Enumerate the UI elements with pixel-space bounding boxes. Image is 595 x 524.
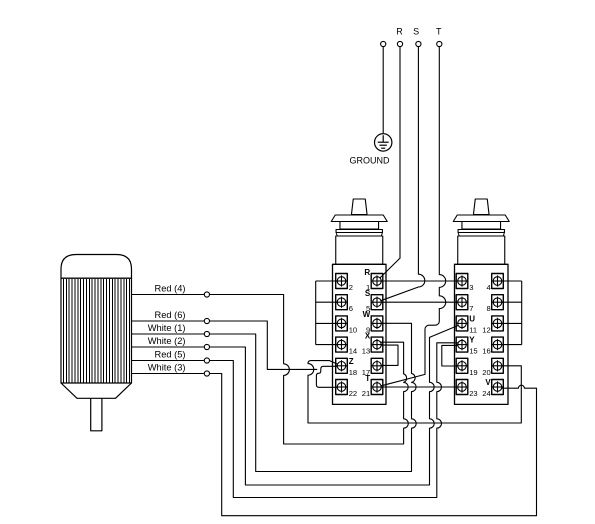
supply entry terminal circle S <box>416 41 421 46</box>
svg-text:14: 14 <box>349 347 357 356</box>
svg-text:R: R <box>364 268 370 277</box>
svg-text:10: 10 <box>349 325 357 334</box>
svg-text:6: 6 <box>349 304 353 313</box>
svg-text:Y: Y <box>469 336 475 345</box>
svg-text:23: 23 <box>469 389 477 398</box>
supply entry terminal circle T <box>437 41 442 46</box>
supply entry terminal circle R <box>397 41 402 46</box>
terminal block 2 terminal 3 screw <box>456 274 468 289</box>
terminal block 2 terminal 15 screw <box>456 337 468 352</box>
svg-text:11: 11 <box>469 325 477 334</box>
wire terminal 1 to terminal 3 <box>378 280 461 282</box>
wire White (2) from motor to terminal 11 U <box>132 324 461 485</box>
wire Red (5) from motor to terminal 15 Y <box>132 343 462 498</box>
wire terminal 5 to terminal 7 <box>378 301 461 303</box>
terminal block 1 terminal 22 screw <box>336 380 348 395</box>
svg-text:2: 2 <box>349 283 353 292</box>
terminal block 1 terminal 5 screw <box>371 295 383 310</box>
svg-text:18: 18 <box>349 368 357 377</box>
terminal block 1 terminal 14 screw <box>336 337 348 352</box>
motor lead connector circle at y=334.0 <box>204 331 209 336</box>
svg-text:X: X <box>365 331 371 340</box>
terminal block 1 terminal strip body <box>333 264 387 404</box>
terminal block 1 terminal 2 screw <box>336 274 348 289</box>
svg-text:3: 3 <box>469 283 473 292</box>
ground symbol <box>375 134 392 151</box>
wire terminal 21 to terminal 23 <box>379 386 462 388</box>
svg-text:U: U <box>469 315 475 324</box>
motor shaft <box>91 398 102 431</box>
wire White (1) from motor to terminal 9 W <box>132 323 417 471</box>
svg-text:15: 15 <box>469 347 477 356</box>
terminal block 2 terminal 8 screw <box>492 295 504 310</box>
svg-text:13: 13 <box>362 347 370 356</box>
wire Red (4) from motor to terminal 13 X, hops over Red6 wire, bus 20-18, wire 21-23 and T diagonal <box>132 295 409 445</box>
svg-text:S: S <box>365 289 371 298</box>
supply entry terminal circle (ground lead) <box>381 41 386 46</box>
terminal block 1 terminal 6 screw <box>336 295 348 310</box>
svg-text:7: 7 <box>469 304 473 313</box>
terminal block 1 terminal 17 screw <box>371 358 383 373</box>
svg-text:20: 20 <box>482 368 490 377</box>
svg-text:Red (6): Red (6) <box>154 310 185 320</box>
wire S supply down, hop over wire 1-3, to terminal 5 <box>378 47 425 302</box>
motor lead connector circle at y=347.0 <box>204 344 209 349</box>
svg-text:12: 12 <box>482 325 490 334</box>
motor stator hatched section <box>61 278 132 383</box>
terminal block 1 terminal 1 screw <box>371 274 383 289</box>
terminal block 2 terminal 19 screw <box>456 358 468 373</box>
svg-text:White (3): White (3) <box>148 363 186 373</box>
terminal block 2 terminal 24 screw <box>492 380 504 395</box>
svg-text:4: 4 <box>486 283 490 292</box>
svg-text:16: 16 <box>482 347 490 356</box>
terminal block 2 terminal 11 screw <box>456 316 468 331</box>
terminal block 2 terminal 7 screw <box>456 295 468 310</box>
terminal block 2 terminal 4 screw <box>492 274 504 289</box>
terminal block 1 terminal 9 screw <box>371 316 383 331</box>
terminal block 1 terminal 13 screw <box>371 337 383 352</box>
jumper terminal 18 Z to terminal 22 <box>316 366 340 387</box>
svg-text:W: W <box>363 310 371 319</box>
wire ground lead down to ground symbol <box>382 47 384 134</box>
terminal block 2 terminal 20 screw <box>492 358 504 373</box>
jumper terminal 15 Y to terminal 19 <box>442 345 461 366</box>
terminal block 1 plug connector top <box>351 199 367 215</box>
svg-text:24: 24 <box>482 389 490 398</box>
motor lead connector circle at y=373.5 <box>204 371 209 376</box>
svg-text:GROUND: GROUND <box>350 156 390 166</box>
svg-text:Red (5): Red (5) <box>154 350 185 360</box>
terminal block 2 plug connector top <box>473 199 489 215</box>
svg-text:V: V <box>485 378 491 387</box>
wire White (3) from motor around bottom to terminal 24 V, hop over terminal-20 wire <box>132 374 537 516</box>
svg-text:White (1): White (1) <box>148 323 186 333</box>
motor lead connector circle at y=321.0 <box>204 318 209 323</box>
svg-text:21: 21 <box>362 389 370 398</box>
svg-text:22: 22 <box>349 389 357 398</box>
bus bar linking terminals 2 6 10 14 <box>316 281 340 345</box>
wire Red (6) from motor to terminal 18 Z jumper <box>132 321 318 369</box>
motor lead connector circle at y=294.5 <box>204 292 209 297</box>
svg-text:R: R <box>396 27 403 37</box>
terminal block 1 terminal 10 screw <box>336 316 348 331</box>
terminal block 2 terminal 23 screw <box>456 380 468 395</box>
svg-text:White (2): White (2) <box>148 336 186 346</box>
svg-text:S: S <box>413 27 419 37</box>
motor body dome <box>61 255 132 279</box>
terminal block 1 terminal 18 screw <box>336 358 348 373</box>
terminal block 1 terminal 21 screw <box>371 380 383 395</box>
svg-text:Red (4): Red (4) <box>154 284 185 294</box>
terminal block 2 terminal strip body <box>455 264 509 404</box>
wire R supply down to terminal 1 <box>377 47 400 281</box>
svg-text:T: T <box>365 374 370 383</box>
wire T supply down, hops over wires 1-3 and 5-7, jog left, down, diagonal to terminal 21 <box>378 47 446 387</box>
svg-text:19: 19 <box>469 368 477 377</box>
svg-text:8: 8 <box>486 304 490 313</box>
bus bar linking terminals 4 8 12 16 <box>499 281 522 345</box>
motor bottom end-bell <box>61 383 132 398</box>
wire terminal 20 to terminal 18 Z via bottom bus, hop over Red6 wire <box>308 361 521 423</box>
terminal block 2 terminal 16 screw <box>492 337 504 352</box>
terminal block 2 terminal 12 screw <box>492 316 504 331</box>
svg-text:Z: Z <box>349 357 354 366</box>
svg-text:T: T <box>436 27 442 37</box>
motor lead connector circle at y=360.5 <box>204 358 209 363</box>
jumper terminal 13 X to terminal 17 <box>378 345 398 365</box>
